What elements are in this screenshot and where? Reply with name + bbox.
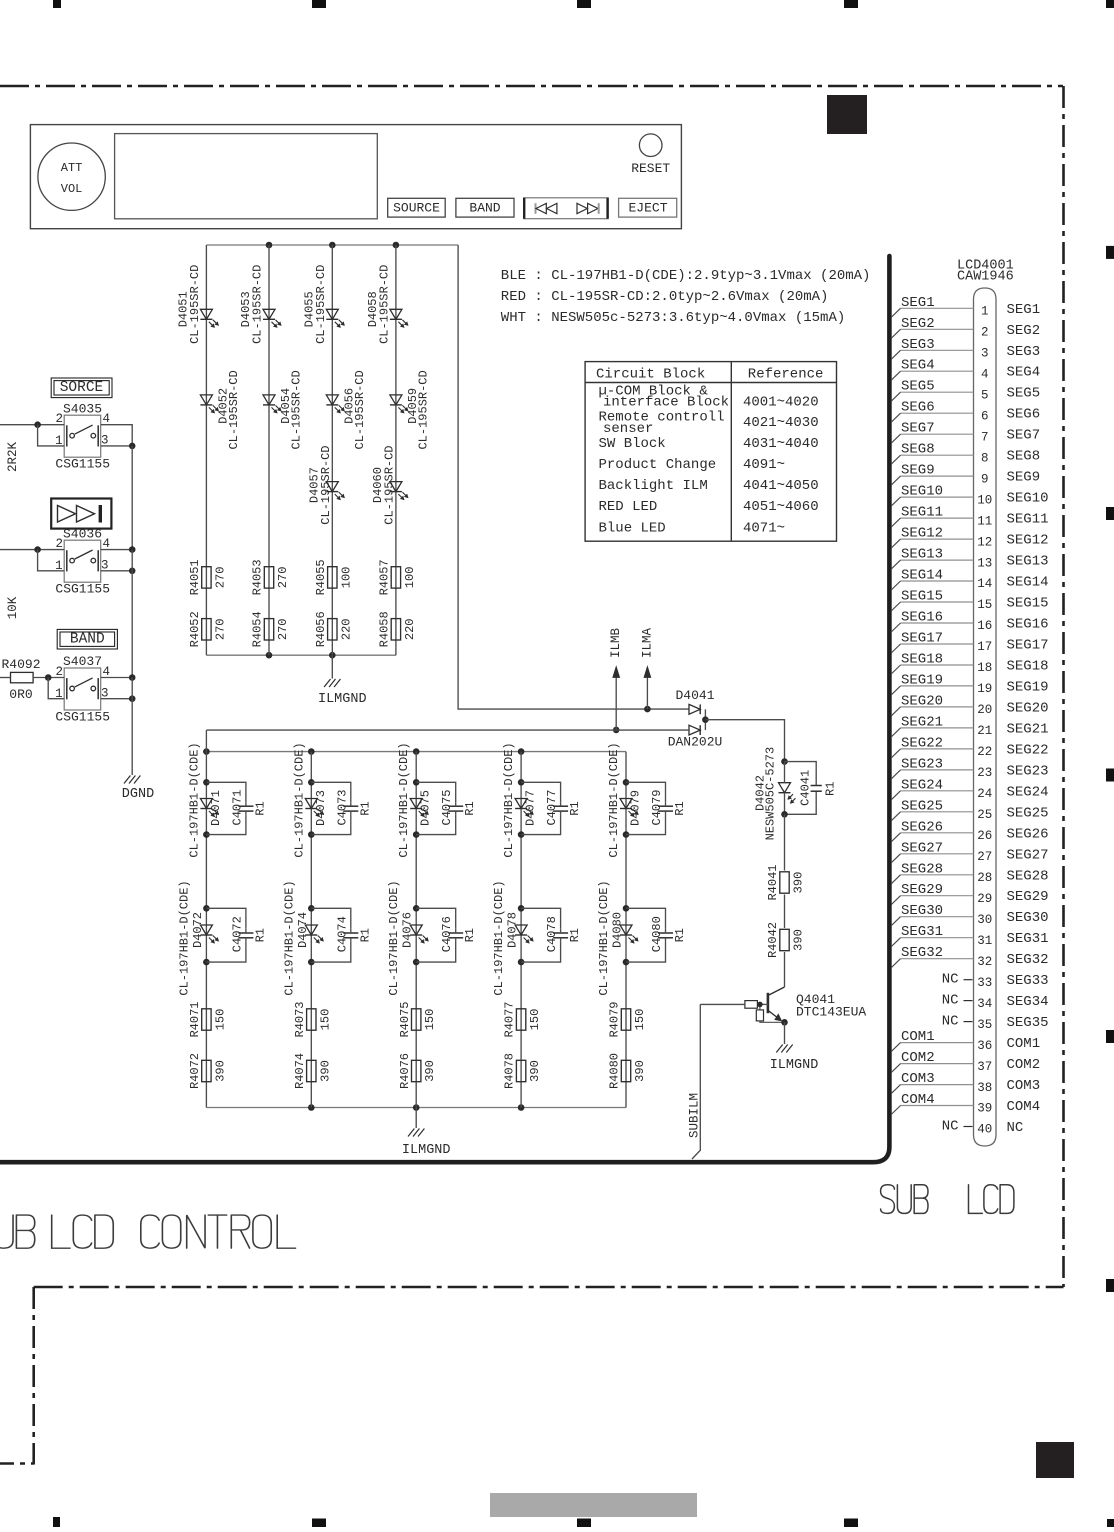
svg-text:28: 28 [977, 871, 992, 885]
svg-text:SEG32: SEG32 [1007, 952, 1049, 968]
svg-text:390: 390 [213, 1060, 227, 1082]
svg-text:15: 15 [977, 598, 992, 612]
svg-text:SEG3: SEG3 [901, 337, 935, 353]
svg-text:R1: R1 [253, 801, 267, 815]
svg-text:390: 390 [318, 1060, 332, 1082]
svg-text:35: 35 [977, 1018, 992, 1032]
wire red-LED array bottom bus [206, 654, 396, 656]
svg-text:R4078: R4078 [503, 1053, 517, 1089]
svg-text:SEG18: SEG18 [901, 652, 943, 668]
junction D4042 cathode [781, 811, 788, 818]
svg-text:SEG6: SEG6 [1007, 407, 1041, 423]
svg-text:R4057: R4057 [378, 559, 392, 595]
reference table frame [585, 362, 836, 542]
svg-text:SUBILM: SUBILM [688, 1093, 702, 1138]
resistor R4076 390 [398, 1053, 437, 1089]
svg-text:CSG1155: CSG1155 [55, 582, 110, 597]
LED D4080 CL-197HB1-D(CDE) with capacitor C4080 [597, 880, 687, 995]
svg-text:4021~4030: 4021~4030 [743, 415, 819, 431]
wire red-LED column 1 [205, 245, 207, 655]
junction at S4037 input [45, 674, 52, 681]
svg-text:17: 17 [977, 640, 992, 654]
svg-text:R4072: R4072 [188, 1053, 202, 1089]
LED D4074 CL-197HB1-D(CDE) with capacitor C4074 [282, 880, 372, 995]
svg-text:SEG35: SEG35 [1007, 1015, 1049, 1031]
junction blue top bus col2 [308, 748, 315, 755]
junction top bus col4 [393, 242, 400, 249]
svg-text:CL-195SR-CD: CL-195SR-CD [382, 445, 396, 524]
svg-text:SEG20: SEG20 [901, 693, 943, 709]
wire net SEG7 to pin 7 [891, 421, 973, 444]
LED D4071 CL-197HB1-D(CDE) with capacitor C4071 [187, 742, 267, 857]
svg-text:SOURCE: SOURCE [393, 201, 440, 216]
wire net SEG1 to pin 1 [891, 295, 973, 318]
wire D4041 output to D4042 [705, 720, 784, 762]
svg-text:CL-195SR-CD: CL-195SR-CD [353, 370, 367, 449]
junction blue top bus col3 [413, 748, 420, 755]
svg-text:SEG7: SEG7 [1007, 428, 1041, 444]
junction blue bottom bus col3 [413, 1104, 420, 1111]
svg-text:R4077: R4077 [503, 1001, 517, 1037]
svg-text:4051~4060: 4051~4060 [743, 499, 819, 515]
transistor Q4041 DTC143EUA [745, 987, 867, 1022]
svg-text:29: 29 [977, 892, 992, 906]
svg-text:SEG32: SEG32 [901, 945, 943, 961]
svg-text:CL-195SR-CD: CL-195SR-CD [416, 370, 430, 449]
wire net COM3 to pin 38 [891, 1071, 973, 1094]
svg-text:R1: R1 [673, 928, 687, 942]
wire Q4041 base from SUBILM [700, 1003, 745, 1005]
net SUBILM wire [688, 1004, 702, 1159]
wire D4042 to R4041 [784, 814, 786, 870]
ground ILMGND (Q4041) [770, 1045, 819, 1074]
svg-text:SEG14: SEG14 [901, 568, 943, 584]
svg-text:D4075: D4075 [419, 790, 433, 826]
svg-text:4041~4050: 4041~4050 [743, 478, 819, 494]
wire net COM4 to pin 39 [891, 1092, 973, 1115]
svg-text:D4079: D4079 [629, 790, 643, 826]
svg-text:CL-197HB1-D(CDE): CL-197HB1-D(CDE) [597, 880, 611, 995]
svg-text:4: 4 [103, 412, 111, 426]
svg-text:270: 270 [213, 618, 227, 640]
wire net SEG18 to pin 18 [891, 652, 973, 675]
section marker black square (bottom right) [1036, 1442, 1074, 1478]
svg-text:SEG8: SEG8 [1007, 449, 1041, 465]
svg-text:24: 24 [977, 787, 992, 801]
wire net COM1 to pin 36 [891, 1029, 973, 1052]
svg-text:SEG17: SEG17 [901, 631, 943, 647]
svg-text:R1: R1 [358, 928, 372, 942]
LED D4060 CL-195SR-CD [371, 445, 408, 524]
wire S4037 pin4 to bus [101, 677, 133, 679]
registration marks right edge [1106, 246, 1114, 1292]
svg-text:C4077: C4077 [545, 789, 559, 825]
svg-text:SEG29: SEG29 [901, 882, 943, 898]
bus wire S4036 to S4037 [131, 550, 133, 678]
svg-text:31: 31 [977, 934, 992, 948]
LED D4042 NESW505C-5273 with capacitor C4041 [754, 747, 838, 841]
wire blue-LED column 2 [310, 752, 312, 1108]
front panel outline [30, 125, 681, 229]
svg-text:SEG4: SEG4 [901, 358, 935, 374]
svg-text:R4080: R4080 [608, 1053, 622, 1089]
svg-text:27: 27 [977, 850, 992, 864]
svg-text:D4080: D4080 [611, 912, 625, 948]
svg-text:SEG11: SEG11 [901, 505, 943, 521]
svg-text:R4073: R4073 [293, 1001, 307, 1037]
svg-text:16: 16 [977, 619, 992, 633]
LED D4079 CL-197HB1-D(CDE) with capacitor C4079 [607, 742, 687, 857]
wire blue-LED column 1 [205, 730, 207, 1107]
svg-text:390: 390 [792, 929, 806, 951]
svg-text:C4075: C4075 [440, 789, 454, 825]
svg-text:R4042: R4042 [766, 922, 780, 958]
junction D4041 output [702, 716, 709, 723]
track-skip key legend box [51, 499, 111, 529]
wire net SEG28 to pin 28 [891, 861, 973, 884]
LED D4052 CL-195SR-CD [200, 370, 241, 449]
junction blue bottom bus col4 [518, 1104, 525, 1111]
LED D4073 CL-197HB1-D(CDE) with capacitor C4073 [292, 742, 372, 857]
svg-text:R4079: R4079 [608, 1001, 622, 1037]
svg-text:R1: R1 [568, 801, 582, 815]
svg-text:21: 21 [977, 724, 992, 738]
junction S4036 pin4/bus [129, 546, 136, 553]
svg-text:SEG2: SEG2 [901, 316, 935, 332]
svg-text:Blue LED: Blue LED [599, 520, 666, 536]
svg-text:SEG1: SEG1 [901, 295, 935, 311]
gray label bar (bottom center) [490, 1493, 697, 1517]
svg-text:CL-197HB1-D(CDE): CL-197HB1-D(CDE) [502, 742, 516, 857]
svg-text:18: 18 [977, 661, 992, 675]
wire net SEG2 to pin 2 [891, 316, 973, 339]
svg-text:270: 270 [213, 567, 227, 589]
svg-text:SEG1: SEG1 [1007, 302, 1041, 318]
svg-text:39: 39 [977, 1102, 992, 1116]
LED D4053 CL-195SR-CD [239, 265, 281, 344]
resistor R4092 0R0 [1, 657, 40, 702]
svg-text:BAND: BAND [70, 632, 105, 648]
junction top bus col2 [266, 242, 273, 249]
svg-text:100: 100 [339, 567, 353, 589]
svg-text:ILMGND: ILMGND [402, 1143, 451, 1158]
svg-text:COM3: COM3 [901, 1071, 935, 1087]
svg-text:220: 220 [403, 618, 417, 640]
svg-text:D4071: D4071 [209, 790, 223, 826]
table row 4071~ [599, 520, 786, 536]
svg-text:R4041: R4041 [766, 864, 780, 900]
svg-text:13: 13 [977, 556, 992, 570]
svg-text:36: 36 [977, 1039, 992, 1053]
svg-text:COM1: COM1 [901, 1029, 935, 1045]
LED D4072 CL-197HB1-D(CDE) with capacitor C4072 [177, 880, 267, 995]
svg-text:SEG34: SEG34 [1007, 994, 1049, 1010]
junction D4042 anode [781, 758, 788, 765]
wire net SEG9 to pin 9 [891, 463, 973, 486]
svg-text:390: 390 [423, 1060, 437, 1082]
svg-text:4: 4 [103, 537, 111, 551]
svg-text:34: 34 [977, 997, 992, 1011]
junction blue top bus col4 [518, 748, 525, 755]
table header [596, 367, 823, 383]
svg-text:6: 6 [981, 409, 989, 423]
svg-text:100: 100 [403, 567, 417, 589]
svg-text:SEG25: SEG25 [901, 798, 943, 814]
svg-text:Backlight ILM: Backlight ILM [599, 478, 708, 494]
svg-text:2: 2 [56, 665, 64, 679]
wire blue-LED array top bus [206, 751, 626, 753]
svg-text:D4072: D4072 [191, 912, 205, 948]
svg-text:RED : CL-195SR-CD:2.0typ~2.6V: RED : CL-195SR-CD:2.0typ~2.6Vmax (20mA) [501, 289, 829, 305]
track skip button [524, 198, 608, 219]
svg-text:WHT : NESW505c-5273:3.6typ~4.: WHT : NESW505c-5273:3.6typ~4.0Vmax (15mA… [501, 310, 845, 326]
svg-text:Reference: Reference [748, 367, 824, 383]
svg-text:CL-195SR-CD: CL-195SR-CD [188, 265, 202, 344]
wire net SEG14 to pin 14 [891, 568, 973, 591]
svg-text:SEG4: SEG4 [1007, 365, 1041, 381]
svg-text:C4074: C4074 [335, 916, 349, 952]
resistor R4080 390 [608, 1053, 647, 1089]
svg-text:CL-195SR-CD: CL-195SR-CD [290, 370, 304, 449]
wire net SEG27 to pin 27 [891, 840, 973, 863]
wire loop S4035 pin1 [38, 425, 65, 446]
svg-text:RED LED: RED LED [599, 499, 658, 515]
svg-text:150: 150 [423, 1009, 437, 1031]
svg-text:SEG31: SEG31 [1007, 931, 1049, 947]
resistor R4054 270 [251, 611, 290, 647]
junction blue top bus col1 [203, 748, 210, 755]
svg-text:D4078: D4078 [506, 912, 520, 948]
title SUB LCD CONTROL (partially off page) [0, 1215, 296, 1248]
wire net SEG15 to pin 15 [891, 589, 973, 612]
LED D4077 CL-197HB1-D(CDE) with capacitor C4077 [502, 742, 582, 857]
svg-text:COM4: COM4 [901, 1092, 935, 1108]
svg-text:COM2: COM2 [901, 1050, 935, 1066]
SORCE key legend box [51, 378, 112, 398]
EJECT button [619, 198, 677, 217]
pin 35 NC tick [942, 1014, 973, 1030]
svg-text:37: 37 [977, 1060, 992, 1074]
svg-text:NC: NC [942, 1119, 959, 1135]
wire R4041 to R4042 [784, 895, 786, 929]
svg-text:D4074: D4074 [296, 912, 310, 948]
svg-text:4091~: 4091~ [743, 457, 785, 473]
junction S4036 pin3/bus [129, 568, 136, 575]
svg-text:ILMA: ILMA [640, 628, 654, 659]
svg-text:C4071: C4071 [230, 789, 244, 825]
table row 4091~ [599, 457, 786, 473]
wire net SEG26 to pin 26 [891, 819, 973, 842]
LED D4078 CL-197HB1-D(CDE) with capacitor C4078 [492, 880, 582, 995]
svg-text:SEG5: SEG5 [901, 379, 935, 395]
svg-text:CL-195SR-CD: CL-195SR-CD [227, 370, 241, 449]
wire net SEG32 to pin 32 [891, 945, 973, 968]
junction S4037 pin3/bus [129, 695, 136, 702]
junction bottom bus col2 [266, 652, 273, 659]
svg-text:NC: NC [942, 972, 959, 988]
svg-text:DTC143EUA: DTC143EUA [796, 1005, 866, 1020]
sheet border dash-dot right [1062, 86, 1065, 1287]
svg-text:SEG3: SEG3 [1007, 344, 1041, 360]
svg-text:SEG27: SEG27 [901, 840, 943, 856]
wire red-LED column 4 [395, 245, 397, 655]
svg-text:S4037: S4037 [63, 654, 102, 669]
svg-text:SEG23: SEG23 [1007, 763, 1049, 779]
svg-text:RESET: RESET [631, 161, 670, 176]
svg-text:interface Block: interface Block [603, 395, 729, 411]
registration marks top edge [53, 0, 1114, 8]
wire net SEG25 to pin 25 [891, 798, 973, 821]
svg-text:38: 38 [977, 1081, 992, 1095]
wire net SEG23 to pin 23 [891, 756, 973, 779]
svg-text:R4075: R4075 [398, 1001, 412, 1037]
junction bottom bus col3 [329, 652, 336, 659]
svg-text:SEG28: SEG28 [1007, 868, 1049, 884]
junction blue bottom bus col2 [308, 1104, 315, 1111]
wire net SEG30 to pin 30 [891, 903, 973, 926]
resistor R4053 270 [251, 559, 290, 595]
pin 40 NC tick [942, 1119, 973, 1135]
switch S4035 [55, 401, 110, 471]
LED D4059 CL-195SR-CD [390, 370, 431, 449]
LED D4057 CL-195SR-CD [307, 445, 344, 524]
svg-text:CSG1155: CSG1155 [55, 457, 110, 472]
svg-text:23: 23 [977, 766, 992, 780]
svg-text:CSG1155: CSG1155 [55, 709, 110, 724]
svg-text:D4076: D4076 [401, 912, 415, 948]
svg-text:0R0: 0R0 [9, 687, 32, 702]
wire D4041 cathodes join [704, 709, 706, 730]
net arrow ILMB [609, 628, 623, 730]
wire red-LED column 3 [331, 245, 333, 655]
pin 33 NC tick [942, 972, 973, 988]
volume knob ATT/VOL [38, 143, 105, 210]
LED D4058 CL-195SR-CD [366, 265, 408, 344]
wire blue-LED column 5 [625, 752, 627, 1108]
wire red-LED array top bus [206, 244, 458, 246]
svg-text:CAW1946: CAW1946 [957, 269, 1014, 284]
svg-text:R4071: R4071 [188, 1001, 202, 1037]
wire blue-LED array ground stem [415, 1108, 417, 1129]
wire net SEG24 to pin 24 [891, 777, 973, 800]
svg-text:2R2K: 2R2K [6, 442, 20, 473]
svg-text:R4051: R4051 [188, 559, 202, 595]
wire S4036 pin3 to bus [101, 570, 133, 572]
svg-text:SEG10: SEG10 [901, 484, 943, 500]
svg-text:SEG17: SEG17 [1007, 638, 1049, 654]
svg-text:SEG9: SEG9 [1007, 470, 1041, 486]
svg-text:SEG26: SEG26 [901, 819, 943, 835]
table row 4021~4030 [599, 410, 819, 438]
svg-text:SEG18: SEG18 [1007, 659, 1049, 675]
svg-text:CL-197HB1-D(CDE): CL-197HB1-D(CDE) [397, 742, 411, 857]
svg-text:DAN202U: DAN202U [668, 734, 723, 749]
wire net SEG31 to pin 31 [891, 924, 973, 947]
resistor R4072 390 [188, 1053, 227, 1089]
svg-text:SEG20: SEG20 [1007, 700, 1049, 716]
wire S4035 pin3 to bus [101, 445, 133, 447]
wire input to S4035 pin2 [0, 424, 64, 426]
svg-text:R4054: R4054 [251, 611, 265, 647]
wire net SEG29 to pin 29 [891, 882, 973, 905]
svg-text:ILMGND: ILMGND [770, 1058, 819, 1073]
sheet border dash-dot top [0, 85, 1063, 88]
wire loop S4037 pin1 [48, 678, 64, 699]
svg-text:3: 3 [981, 347, 989, 361]
wire net SEG3 to pin 3 [891, 337, 973, 360]
svg-text:R4092: R4092 [1, 657, 40, 672]
heavy bus border line [0, 256, 889, 1162]
resistor R4052 270 [188, 611, 227, 647]
junction ILMA [644, 706, 651, 713]
svg-text:390: 390 [528, 1060, 542, 1082]
wire loop S4036 pin1 [38, 550, 65, 571]
bus wire S4035 to S4036 [131, 446, 133, 550]
junction top bus col3 [329, 242, 336, 249]
svg-text:CL-197HB1-D(CDE): CL-197HB1-D(CDE) [187, 742, 201, 857]
LED D4051 CL-195SR-CD [176, 265, 218, 344]
svg-text:SEG16: SEG16 [901, 610, 943, 626]
svg-text:220: 220 [339, 618, 353, 640]
svg-text:SEG22: SEG22 [1007, 742, 1049, 758]
svg-text:25: 25 [977, 808, 992, 822]
wire Q4041 emitter to ground [784, 1022, 786, 1044]
svg-text:R1: R1 [463, 928, 477, 942]
LED D4055 CL-195SR-CD [302, 265, 344, 344]
svg-text:C4041: C4041 [798, 770, 812, 806]
junction Q4041 emitter [781, 1019, 788, 1026]
svg-text:SEG30: SEG30 [901, 903, 943, 919]
dual diode D4041 DAN202U [668, 688, 723, 750]
svg-text:12: 12 [977, 535, 992, 549]
svg-text:CL-195SR-CD: CL-195SR-CD [314, 265, 328, 344]
svg-text:40: 40 [977, 1123, 992, 1137]
svg-text:R4056: R4056 [314, 611, 328, 647]
svg-text:32: 32 [977, 955, 992, 969]
ground DGND [122, 776, 154, 803]
junction S4035 pin3/bus [129, 443, 136, 450]
svg-text:R4052: R4052 [188, 611, 202, 647]
svg-text:SEG14: SEG14 [1007, 575, 1049, 591]
svg-text:C4078: C4078 [545, 916, 559, 952]
svg-text:R4058: R4058 [378, 611, 392, 647]
svg-text:R1: R1 [673, 801, 687, 815]
svg-text:SEG11: SEG11 [1007, 512, 1049, 528]
svg-text:C4076: C4076 [440, 916, 454, 952]
svg-text:SEG15: SEG15 [901, 589, 943, 605]
svg-text:R1: R1 [253, 928, 267, 942]
resistor R4074 390 [293, 1053, 332, 1089]
svg-text:26: 26 [977, 829, 992, 843]
svg-text:NC: NC [942, 993, 959, 1009]
wire R4042 to Q4041 collector [784, 952, 786, 987]
svg-text:COM1: COM1 [1007, 1036, 1041, 1052]
wire net SEG10 to pin 10 [891, 484, 973, 507]
svg-text:R1: R1 [463, 801, 477, 815]
svg-text:SEG25: SEG25 [1007, 805, 1049, 821]
svg-text:SEG12: SEG12 [1007, 533, 1049, 549]
svg-text:SEG29: SEG29 [1007, 889, 1049, 905]
svg-text:SEG19: SEG19 [901, 672, 943, 688]
svg-text:senser: senser [603, 421, 653, 437]
svg-text:CL-195SR-CD: CL-195SR-CD [251, 265, 265, 344]
resistor R4051 270 [188, 559, 227, 595]
svg-text:SEG22: SEG22 [901, 735, 943, 751]
svg-text:C4080: C4080 [650, 916, 664, 952]
wire net SEG17 to pin 17 [891, 631, 973, 654]
wire blue-LED array top feed [206, 729, 689, 731]
svg-text:BLE : CL-197HB1-D(CDE):2.9typ: BLE : CL-197HB1-D(CDE):2.9typ~3.1Vmax (2… [501, 268, 871, 284]
